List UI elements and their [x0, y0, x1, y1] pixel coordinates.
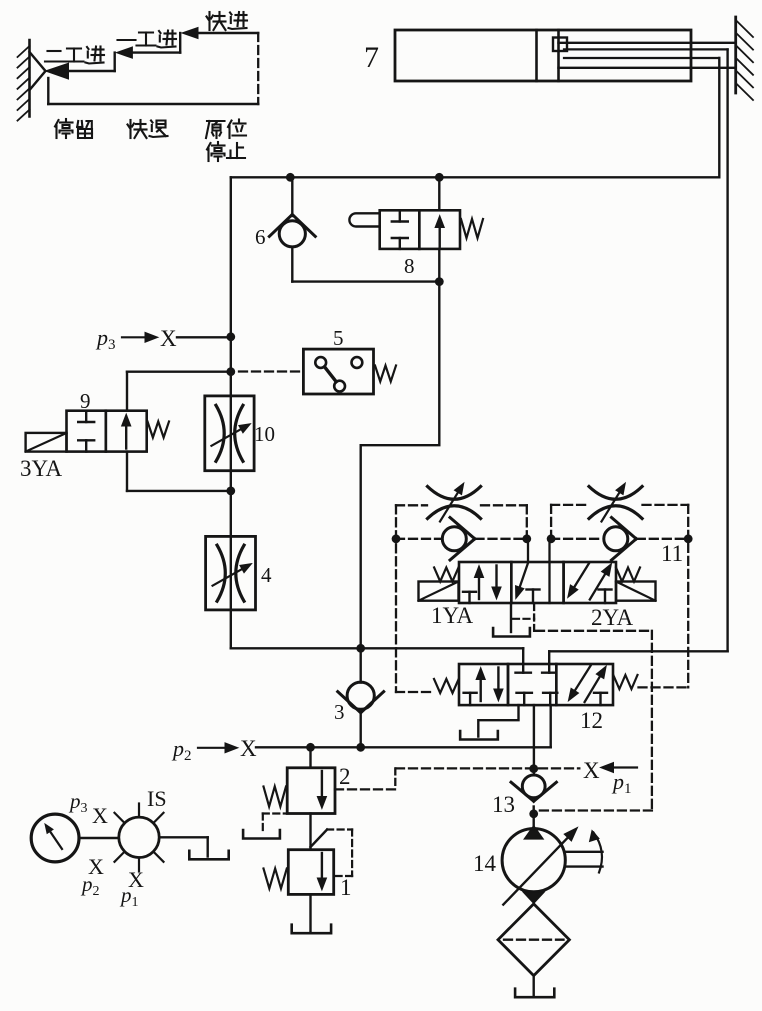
svg-text:12: 12 — [580, 708, 603, 733]
svg-text:14: 14 — [473, 851, 497, 876]
svg-text:6: 6 — [255, 225, 266, 249]
svg-text:11: 11 — [661, 541, 683, 566]
svg-text:2: 2 — [339, 764, 351, 789]
svg-text:X: X — [160, 326, 177, 351]
svg-text:10: 10 — [254, 422, 275, 446]
svg-text:4: 4 — [261, 563, 272, 587]
svg-text:8: 8 — [404, 254, 415, 278]
svg-text:1YA: 1YA — [431, 603, 474, 628]
svg-text:2YA: 2YA — [591, 605, 634, 630]
svg-text:7: 7 — [364, 41, 379, 74]
svg-text:IS: IS — [147, 786, 167, 811]
svg-text:X: X — [92, 803, 108, 828]
svg-text:1: 1 — [340, 875, 352, 900]
svg-text:9: 9 — [80, 389, 91, 413]
svg-text:X: X — [583, 758, 600, 783]
svg-text:3YA: 3YA — [20, 456, 63, 481]
svg-text:3: 3 — [334, 700, 345, 724]
svg-text:X: X — [240, 736, 257, 761]
svg-text:5: 5 — [333, 326, 344, 350]
svg-text:13: 13 — [492, 792, 515, 817]
